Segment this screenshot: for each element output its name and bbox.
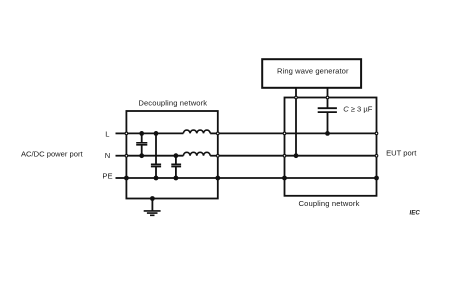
wire L after inductor bbox=[210, 132, 218, 134]
junction ground on box bbox=[150, 196, 155, 201]
terminal N coupling right bbox=[375, 154, 378, 157]
ground lead bbox=[151, 199, 153, 212]
terminal L decoupling left bbox=[125, 132, 128, 135]
svg-text:N: N bbox=[105, 151, 110, 160]
svg-text:Ring wave generator: Ring wave generator bbox=[277, 66, 349, 75]
wire N stub left bbox=[116, 155, 127, 157]
wire PE decoupling to coupling bbox=[218, 177, 285, 179]
wire N decoupling to coupling bbox=[218, 155, 285, 157]
wire L decoupling to coupling bbox=[218, 132, 285, 134]
ground symbol bbox=[144, 211, 161, 215]
svg-text:PE: PE bbox=[102, 172, 112, 181]
junction C3 bottom on PE bbox=[174, 176, 179, 181]
capacitor C3 N-PE lead top bbox=[175, 156, 177, 165]
svg-text:AC/DC power port: AC/DC power port bbox=[21, 149, 84, 158]
wire L through coupling network bbox=[285, 132, 377, 134]
wire N through decoupling network bbox=[126, 155, 183, 157]
junction C2 bottom on PE bbox=[154, 176, 159, 181]
wire N after inductor bbox=[210, 155, 218, 157]
wire L through decoupling network bbox=[126, 132, 183, 134]
terminal N decoupling right bbox=[217, 154, 220, 157]
capacitor C3 N-PE lead bottom bbox=[175, 167, 177, 179]
junction C2 top on L bbox=[154, 131, 159, 136]
svg-text:C ≥ 3 µF: C ≥ 3 µF bbox=[343, 104, 373, 113]
svg-text:EUT port: EUT port bbox=[386, 149, 417, 158]
svg-text:IEC: IEC bbox=[410, 209, 421, 216]
decoupling network box bbox=[126, 111, 217, 199]
junction PE decoupling left bbox=[124, 176, 129, 181]
capacitor C3 N-PE plates bbox=[171, 164, 181, 166]
wire PE through decoupling network bbox=[126, 177, 217, 179]
terminal L decoupling right bbox=[217, 132, 220, 135]
junction generator left wire on N bbox=[294, 153, 299, 158]
inductor L line bbox=[183, 130, 210, 133]
svg-text:L: L bbox=[105, 129, 109, 138]
wire PE through coupling network bbox=[285, 177, 377, 179]
junction capacitor C on L bbox=[325, 131, 330, 136]
svg-text:Decoupling network: Decoupling network bbox=[138, 99, 207, 108]
svg-text:Coupling network: Coupling network bbox=[298, 199, 359, 208]
junction PE coupling right bbox=[374, 176, 379, 181]
inductor N line bbox=[183, 152, 210, 155]
junction C3 top on N bbox=[174, 153, 179, 158]
junction C1 top on L bbox=[139, 131, 144, 136]
ring wave generator box bbox=[262, 59, 361, 88]
terminal generator left on coupling box bbox=[295, 96, 298, 99]
wire generator right to capacitor bbox=[327, 88, 329, 108]
terminal N decoupling left bbox=[125, 154, 128, 157]
wire generator left to N bbox=[295, 88, 297, 156]
capacitor C2 L-PE plates bbox=[151, 164, 161, 166]
capacitor C1 L-N plates bbox=[136, 143, 147, 145]
terminal generator right on coupling box bbox=[326, 96, 329, 99]
capacitor C2 L-PE lead bottom bbox=[155, 167, 157, 179]
capacitor C coupling plates bbox=[318, 108, 337, 112]
capacitor C1 L-N lead bottom bbox=[141, 145, 143, 156]
capacitor C1 L-N lead top bbox=[141, 133, 143, 142]
wire L stub left bbox=[116, 132, 127, 134]
junction PE coupling left bbox=[282, 176, 287, 181]
capacitor C lead to L bbox=[327, 112, 329, 133]
junction PE decoupling right bbox=[215, 176, 220, 181]
terminal L coupling right bbox=[375, 132, 378, 135]
coupling network box bbox=[285, 98, 377, 196]
junction C1 bottom on N bbox=[139, 153, 144, 158]
terminal N coupling left bbox=[283, 154, 286, 157]
wire PE stub left bbox=[116, 177, 127, 179]
capacitor C2 L-PE lead top bbox=[155, 133, 157, 164]
terminal L coupling left bbox=[283, 132, 286, 135]
wire N through coupling network bbox=[285, 155, 377, 157]
